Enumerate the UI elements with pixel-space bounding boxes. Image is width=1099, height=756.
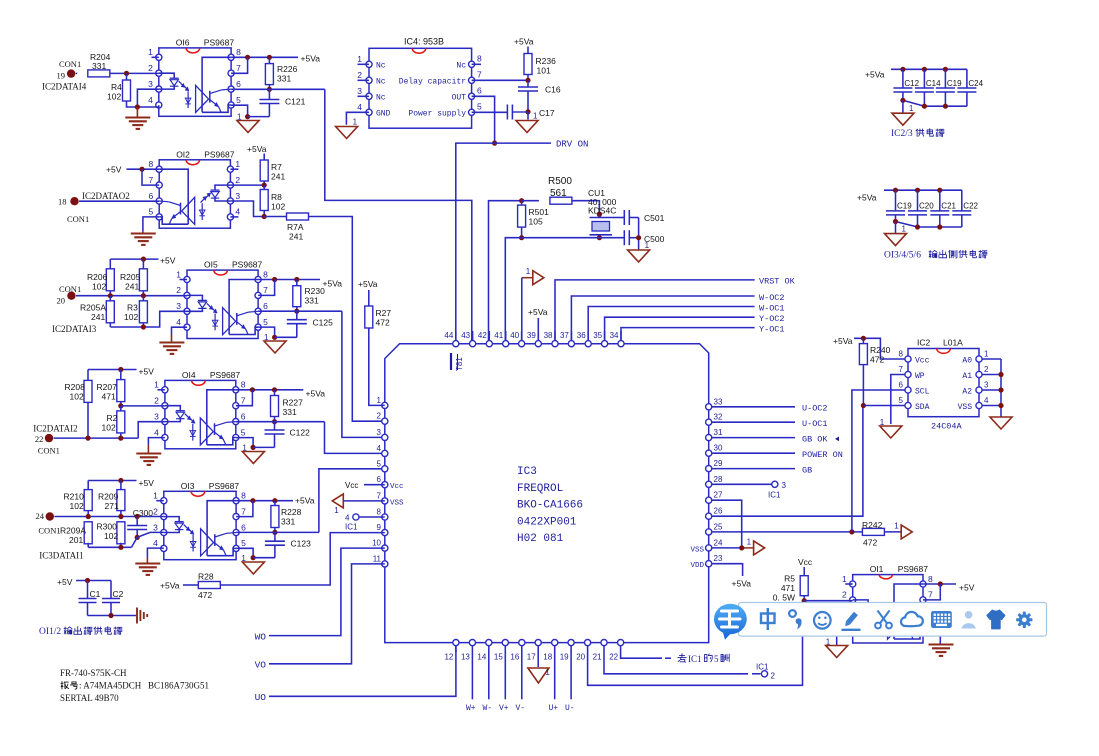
svg-text:33: 33 bbox=[714, 397, 723, 406]
svg-text:1: 1 bbox=[334, 506, 339, 515]
svg-text:CON1: CON1 bbox=[38, 446, 60, 456]
wire Y-OC1 from IC3 pin34 bbox=[621, 328, 755, 344]
svg-text:2: 2 bbox=[771, 672, 776, 681]
offpage pin IC1-3 bbox=[772, 481, 778, 487]
svg-text:14: 14 bbox=[477, 653, 486, 662]
IC2 right pins bbox=[976, 356, 982, 362]
svg-text:1: 1 bbox=[526, 267, 531, 276]
offpage pin IC1-2 bbox=[761, 671, 767, 677]
wire OI1 pin1 stub bbox=[845, 583, 853, 585]
resistor R204 331 bbox=[88, 70, 110, 77]
svg-text:7: 7 bbox=[928, 590, 933, 600]
capacitor C1 bbox=[87, 581, 89, 599]
wire IC3 pin7 to marker bbox=[343, 500, 385, 502]
svg-text:R209A: R209A bbox=[60, 526, 86, 536]
optocoupler OI2 right pins bbox=[227, 166, 233, 172]
svg-text:+5Va: +5Va bbox=[301, 53, 321, 63]
svg-text:10: 10 bbox=[372, 539, 381, 548]
svg-text:102: 102 bbox=[92, 282, 106, 292]
resistor R3 102 bbox=[139, 301, 147, 323]
svg-text:+5Va: +5Va bbox=[247, 144, 267, 154]
wire bottom row OI5 to pin3 bbox=[110, 311, 187, 327]
svg-text:H02 081: H02 081 bbox=[517, 533, 564, 545]
junction R300 bottom bbox=[118, 545, 123, 550]
optocoupler OI3 left pins bbox=[161, 498, 167, 504]
optocoupler OI5 internals bbox=[187, 295, 202, 300]
svg-text:1: 1 bbox=[826, 638, 831, 647]
svg-text:R5: R5 bbox=[784, 574, 795, 584]
ground OI4 bbox=[147, 445, 149, 454]
junction DRV ON bbox=[492, 141, 497, 146]
svg-text:472: 472 bbox=[863, 538, 877, 548]
svg-text:8: 8 bbox=[241, 491, 246, 501]
wire pin4 OI4 to ground bbox=[148, 438, 165, 445]
wire pin3 OI2 riser bbox=[230, 201, 264, 217]
junction OI1 pin7 riser bbox=[938, 581, 943, 586]
svg-text:C24: C24 bbox=[968, 79, 983, 88]
wire VO to IC3 pin11 bbox=[269, 564, 385, 664]
svg-text:R205A: R205A bbox=[80, 303, 106, 313]
svg-text:26: 26 bbox=[714, 507, 723, 516]
svg-text:3: 3 bbox=[984, 381, 989, 390]
svg-text:39: 39 bbox=[527, 331, 536, 340]
svg-text:W-OC2: W-OC2 bbox=[759, 293, 785, 303]
wire DRV ON right bbox=[495, 142, 551, 144]
wire CON1-22 bottom row OI4 bbox=[54, 437, 139, 439]
resistor R500 561 bbox=[522, 200, 539, 202]
svg-text:SCL: SCL bbox=[915, 388, 930, 397]
svg-text:R3: R3 bbox=[127, 303, 138, 313]
svg-text:271: 271 bbox=[105, 501, 119, 511]
wire pin8 OI3 to +5Va bbox=[236, 500, 293, 502]
wire IC3 pin31 GB OK bbox=[712, 437, 795, 439]
wire IC3 pin23 to +5Va bbox=[712, 564, 743, 576]
svg-text:44: 44 bbox=[444, 331, 453, 340]
svg-text:+5V: +5V bbox=[106, 165, 122, 175]
svg-text:331: 331 bbox=[281, 517, 295, 527]
svg-text:20: 20 bbox=[576, 653, 585, 662]
IC3 bottom stubs W+ W- V+ V- U+ U- bbox=[471, 652, 473, 699]
svg-text:T81: T81 bbox=[455, 357, 464, 371]
svg-text:VSS: VSS bbox=[958, 403, 973, 412]
svg-text:IC3: IC3 bbox=[517, 466, 537, 478]
junction C21 bbox=[937, 188, 942, 193]
junction C12 bottom bbox=[900, 98, 905, 103]
svg-text:IC2: IC2 bbox=[917, 338, 931, 348]
net marker 1 IC3 pin24 bbox=[754, 541, 765, 555]
svg-text:U-: U- bbox=[565, 704, 575, 713]
IC3 bottom pins bbox=[453, 640, 459, 646]
svg-text:8: 8 bbox=[899, 350, 904, 359]
svg-text:A2: A2 bbox=[962, 388, 972, 397]
svg-text:PS9687: PS9687 bbox=[204, 149, 235, 159]
wire pin5 OI5 to ground bbox=[258, 327, 275, 337]
svg-text:13: 13 bbox=[461, 653, 470, 662]
IC4 notch bbox=[412, 48, 426, 53]
svg-text:472: 472 bbox=[198, 590, 212, 600]
wire C121 bottom bbox=[248, 116, 270, 118]
wire +5V rail OI5 bbox=[110, 258, 158, 260]
pin1 stub OI5 bbox=[180, 279, 188, 281]
wire pin8 OI4 to +5Va bbox=[236, 389, 303, 391]
svg-text:Vcc: Vcc bbox=[915, 357, 930, 366]
svg-text:PS9687: PS9687 bbox=[204, 37, 235, 47]
svg-text:+5Va: +5Va bbox=[833, 336, 853, 346]
junction +5V riser OI2 bbox=[139, 167, 144, 172]
svg-text:POWER ON: POWER ON bbox=[802, 450, 843, 460]
svg-text:1: 1 bbox=[533, 112, 538, 121]
wire CON1-19 to R204 bbox=[76, 72, 78, 74]
IME toolbar bar bbox=[739, 603, 1047, 637]
svg-text:5: 5 bbox=[241, 538, 246, 548]
svg-text:8: 8 bbox=[263, 269, 268, 279]
svg-text:29: 29 bbox=[714, 459, 723, 468]
junction pin5 gnd OI6 bbox=[245, 114, 250, 119]
svg-text:8: 8 bbox=[377, 508, 382, 517]
svg-text:2: 2 bbox=[148, 63, 153, 73]
wire IC4 pin5 to C17 bbox=[472, 111, 508, 113]
wire pin8 OI6 to +5Va bbox=[231, 56, 298, 58]
svg-text:241: 241 bbox=[289, 232, 303, 242]
svg-text:Vcc: Vcc bbox=[798, 557, 813, 567]
wire OI6 net to IC3 pin43 bbox=[325, 89, 472, 343]
crystal CU1 40.000 KDS4C bbox=[590, 217, 613, 219]
svg-text:6: 6 bbox=[377, 475, 382, 484]
capacitor C21 bbox=[939, 190, 941, 211]
IME icon zhong bbox=[761, 608, 775, 630]
wire R500 left to IC3 pin42 bbox=[489, 201, 522, 344]
svg-text:R7: R7 bbox=[271, 162, 282, 172]
svg-text:2: 2 bbox=[377, 412, 382, 421]
ground marker IC4 bbox=[336, 127, 358, 139]
svg-text:R236: R236 bbox=[536, 56, 557, 66]
wire CON1-20 to pin2 OI5 bbox=[76, 295, 187, 297]
IC U4 953B body bbox=[369, 48, 472, 128]
optocoupler OI2 notch bbox=[186, 160, 200, 165]
svg-text:5: 5 bbox=[714, 654, 719, 664]
resistor R242 472 bbox=[862, 528, 884, 535]
svg-text:WP: WP bbox=[915, 372, 925, 381]
optocoupler OI6 notch bbox=[186, 48, 200, 53]
ground marker cap bank2 bbox=[885, 234, 907, 246]
junction C16/C17 bbox=[525, 109, 530, 114]
junction pin5 gnd OI3 bbox=[251, 555, 256, 560]
IME icon shirt bbox=[987, 610, 1004, 628]
svg-text:+5V: +5V bbox=[57, 577, 73, 587]
capacitor C20 bbox=[917, 190, 919, 211]
wire bottom row OI3 bbox=[88, 546, 131, 548]
offpage pin IC1-4 bbox=[353, 514, 359, 520]
svg-text:28: 28 bbox=[714, 475, 723, 484]
svg-text:4: 4 bbox=[984, 396, 989, 405]
junction pin5 gnd OI4 bbox=[251, 445, 256, 450]
svg-text:1: 1 bbox=[894, 521, 899, 530]
junction R3 bottom bbox=[141, 324, 146, 329]
pin1 stub OI3 bbox=[156, 500, 164, 502]
svg-text:CON1: CON1 bbox=[38, 526, 60, 536]
svg-text:3: 3 bbox=[154, 411, 159, 421]
svg-text:PS9687: PS9687 bbox=[209, 481, 240, 491]
svg-text:30: 30 bbox=[714, 444, 723, 453]
capacitor C2 bbox=[110, 581, 112, 599]
optocoupler OI4 notch bbox=[192, 380, 206, 385]
svg-text:7: 7 bbox=[477, 70, 482, 80]
svg-text:FR-740-S75K-CH: FR-740-S75K-CH bbox=[60, 668, 127, 678]
capacitor C24 bbox=[966, 69, 968, 88]
svg-text:1: 1 bbox=[242, 444, 247, 453]
resistor R4 102 bbox=[126, 73, 128, 80]
optocoupler OI5 left pins bbox=[184, 276, 190, 282]
cap bank1 rail bbox=[891, 68, 967, 70]
wire pin4 OI3 to ground bbox=[147, 548, 163, 557]
net marker 1 IC3 pin7 bbox=[332, 494, 343, 508]
svg-text:2: 2 bbox=[176, 285, 181, 295]
wire pin2 OI2 to R7/R8 bbox=[230, 184, 264, 186]
wire +5V rail OI3 bbox=[88, 480, 136, 482]
resistor R5 471 0.5W bbox=[803, 567, 805, 576]
wire OI1 pin7 riser bbox=[923, 584, 940, 600]
svg-text:+5Va: +5Va bbox=[306, 388, 326, 398]
svg-text:41: 41 bbox=[494, 331, 503, 340]
optocoupler OI6 internals bbox=[159, 73, 174, 78]
svg-text:25: 25 bbox=[714, 522, 723, 531]
pin1 stub OI2 right bbox=[230, 168, 238, 170]
svg-text:+5Va: +5Va bbox=[865, 70, 885, 80]
svg-text:5: 5 bbox=[263, 317, 268, 327]
svg-text:101: 101 bbox=[537, 66, 551, 76]
wire DRV ON to IC3 pin44 bbox=[456, 143, 495, 344]
svg-text:4: 4 bbox=[345, 514, 350, 523]
svg-text:4: 4 bbox=[153, 538, 158, 548]
junction +5V OI4 bbox=[118, 367, 123, 372]
capacitor C121 bbox=[268, 89, 270, 99]
svg-text:PS9687: PS9687 bbox=[232, 260, 263, 270]
svg-text:R242: R242 bbox=[862, 520, 883, 530]
svg-text:IC1: IC1 bbox=[688, 654, 702, 664]
net marker 1 to IC3 pin40 bbox=[533, 271, 544, 285]
svg-text:OI1: OI1 bbox=[870, 564, 884, 574]
svg-text:R8: R8 bbox=[271, 192, 282, 202]
junction pin7 riser OI3 bbox=[250, 498, 255, 503]
wire C1C2 bottom bbox=[88, 615, 137, 617]
svg-text:CON1: CON1 bbox=[59, 284, 81, 294]
svg-text:+5Va: +5Va bbox=[358, 279, 378, 289]
svg-text:3: 3 bbox=[148, 79, 153, 89]
svg-text:+5Va: +5Va bbox=[295, 496, 315, 506]
svg-text:1: 1 bbox=[237, 113, 242, 122]
svg-text:IC1: IC1 bbox=[345, 523, 358, 532]
svg-text:U+: U+ bbox=[549, 704, 559, 713]
IME icon phrase bbox=[789, 610, 796, 617]
svg-text:GB: GB bbox=[802, 465, 812, 475]
resistor R8 102 bbox=[263, 185, 265, 189]
svg-text:+5V: +5V bbox=[160, 256, 176, 266]
wire pin3 OI6 jog bbox=[137, 89, 158, 107]
junction R210 mid bbox=[86, 514, 91, 519]
svg-text:+5Va: +5Va bbox=[160, 581, 180, 591]
svg-text:+5Va: +5Va bbox=[528, 307, 548, 317]
svg-text:12: 12 bbox=[444, 653, 453, 662]
svg-text:R208: R208 bbox=[65, 382, 86, 392]
svg-text:+5Va: +5Va bbox=[514, 37, 534, 47]
svg-text:201: 201 bbox=[69, 535, 83, 545]
svg-text:5: 5 bbox=[477, 102, 482, 112]
wire R207 to pin2 OI4 bbox=[121, 405, 165, 407]
wire pin7 OI3 riser bbox=[236, 501, 253, 517]
net marker 1 R242 bbox=[901, 525, 912, 539]
wire UO to IC3 pin12 bbox=[269, 646, 456, 697]
junction R208 bottom bbox=[85, 436, 90, 441]
pin1 stub OI4 bbox=[157, 389, 165, 391]
svg-text:7: 7 bbox=[241, 506, 246, 516]
ground marker OI6 output bbox=[237, 121, 259, 133]
svg-text:2: 2 bbox=[153, 506, 158, 516]
svg-text:R205: R205 bbox=[120, 272, 141, 282]
svg-text:241: 241 bbox=[125, 282, 139, 292]
svg-text:32: 32 bbox=[714, 413, 723, 422]
wire R242 to marker bbox=[884, 531, 901, 533]
wire pin7 OI4 riser bbox=[236, 390, 253, 406]
svg-text:40: 40 bbox=[510, 331, 519, 340]
svg-text:8: 8 bbox=[241, 380, 246, 390]
connector CON1 pin 20 bbox=[67, 292, 75, 300]
resistor R300 102 bbox=[117, 522, 125, 544]
svg-text:KDS4C: KDS4C bbox=[588, 206, 616, 216]
junction C20 bbox=[915, 188, 920, 193]
capacitor C14 bbox=[923, 69, 925, 88]
junction R5 bottom bbox=[802, 598, 807, 603]
svg-text:CON1: CON1 bbox=[59, 59, 81, 69]
svg-text:R210: R210 bbox=[64, 492, 85, 502]
svg-text:43: 43 bbox=[461, 331, 470, 340]
svg-text:R2: R2 bbox=[107, 413, 118, 423]
resistor R501 105 bbox=[521, 201, 523, 205]
svg-text:35: 35 bbox=[593, 331, 602, 340]
ground marker IC2 WP bbox=[880, 426, 902, 438]
junction pin7 riser OI5 bbox=[272, 277, 277, 282]
wire IC3 pin25 SCL row bbox=[712, 531, 862, 533]
ground OI6 input bbox=[136, 107, 138, 118]
svg-text:+5V: +5V bbox=[139, 367, 155, 377]
resistor R226 331 bbox=[268, 57, 270, 63]
wire IC3 pin26 to SDA bbox=[712, 406, 863, 517]
svg-text:IC1: IC1 bbox=[768, 491, 781, 500]
svg-text:6: 6 bbox=[477, 86, 482, 96]
svg-text:C123: C123 bbox=[291, 539, 312, 549]
svg-text:R300: R300 bbox=[97, 522, 118, 532]
svg-text:+5Va: +5Va bbox=[857, 193, 877, 203]
wire IC3 pin32 U-OC1 bbox=[712, 421, 795, 423]
svg-text:C121: C121 bbox=[285, 97, 306, 107]
ground marker IC2 VSS bbox=[990, 417, 1012, 429]
svg-text:3: 3 bbox=[357, 86, 362, 96]
IME icon person bbox=[962, 611, 976, 629]
junction C12 bbox=[900, 67, 905, 72]
svg-text:Nc: Nc bbox=[456, 61, 466, 70]
junction C500 right bbox=[636, 235, 641, 240]
junction R8 bottom bbox=[262, 214, 267, 219]
svg-text:8: 8 bbox=[236, 47, 241, 57]
svg-text:22: 22 bbox=[35, 434, 44, 444]
svg-text:15: 15 bbox=[494, 653, 503, 662]
svg-text:R206: R206 bbox=[87, 272, 108, 282]
optocoupler OI1 notch bbox=[879, 575, 893, 579]
wire IC4 pin7 to R236 bbox=[472, 79, 528, 81]
optocoupler OI4 left pins bbox=[162, 387, 168, 393]
pin1 stub OI6 bbox=[152, 56, 159, 58]
svg-text:102: 102 bbox=[70, 501, 84, 511]
optocoupler OI1 right pins bbox=[920, 581, 926, 587]
wire pin8 OI5 to +5Va bbox=[258, 279, 320, 281]
svg-text:0422XP001: 0422XP001 bbox=[517, 516, 577, 528]
junction C19b bottom bbox=[893, 219, 898, 224]
svg-text:331: 331 bbox=[277, 74, 291, 84]
svg-text:1: 1 bbox=[545, 668, 550, 677]
svg-text:C19: C19 bbox=[947, 79, 962, 88]
junction R227/C122 bbox=[272, 419, 277, 424]
wire W-OC1 from IC3 pin36 bbox=[588, 307, 754, 344]
svg-text:6: 6 bbox=[899, 381, 904, 390]
svg-text:VO: VO bbox=[255, 660, 267, 671]
capacitor C22 bbox=[961, 190, 963, 211]
svg-text:6: 6 bbox=[241, 522, 246, 532]
junction R228 top bbox=[272, 498, 277, 503]
svg-text:6: 6 bbox=[148, 191, 153, 201]
junction R2 bottom bbox=[118, 436, 123, 441]
svg-text:331: 331 bbox=[283, 407, 297, 417]
svg-text:FREQROL: FREQROL bbox=[517, 483, 563, 495]
svg-text:OI2: OI2 bbox=[176, 149, 190, 159]
wire +5Va to IC2 Vcc bbox=[854, 338, 905, 359]
svg-text:11: 11 bbox=[373, 554, 382, 563]
svg-text:102: 102 bbox=[70, 392, 84, 402]
junction R209 mid bbox=[118, 514, 123, 519]
svg-text:OI6: OI6 bbox=[176, 37, 190, 47]
svg-text:36: 36 bbox=[577, 331, 586, 340]
svg-text:34: 34 bbox=[610, 331, 619, 340]
svg-text:1: 1 bbox=[264, 333, 269, 342]
wire +5V to pin8 OI2 bbox=[127, 168, 160, 170]
svg-text:18: 18 bbox=[58, 197, 67, 207]
svg-text:OI4: OI4 bbox=[182, 370, 196, 380]
svg-text:VDD: VDD bbox=[690, 562, 704, 570]
cap bank2 rail bbox=[884, 189, 962, 191]
connector CON1 pin 24 bbox=[46, 512, 54, 520]
wire CON1-24 to pin2 OI3 bbox=[54, 516, 163, 518]
junction gnd OI6 bbox=[135, 104, 140, 109]
IME icon smiley bbox=[814, 612, 831, 629]
capacitor C122 bbox=[274, 422, 276, 430]
resistor R205 241 bbox=[142, 259, 144, 269]
svg-text:C19: C19 bbox=[897, 202, 912, 211]
svg-text:R28: R28 bbox=[198, 572, 214, 582]
capacitor C16 bbox=[527, 80, 529, 87]
junction SDA bbox=[861, 403, 866, 408]
svg-text:R7A: R7A bbox=[287, 222, 304, 232]
svg-text:R207: R207 bbox=[97, 382, 118, 392]
svg-text:18: 18 bbox=[543, 653, 552, 662]
svg-text:C20: C20 bbox=[919, 202, 934, 211]
svg-text:SERTAL 49B70: SERTAL 49B70 bbox=[60, 693, 119, 703]
svg-text:24C04A: 24C04A bbox=[931, 422, 963, 432]
connector CON1 pin 22 bbox=[45, 434, 53, 442]
svg-text:C17: C17 bbox=[539, 108, 555, 118]
optocoupler OI2 internals bbox=[215, 185, 230, 190]
junction R226/C121 bbox=[267, 87, 272, 92]
resistor R207 471 bbox=[120, 370, 122, 380]
junction pin5 gnd OI5 bbox=[272, 335, 277, 340]
svg-text:3: 3 bbox=[782, 481, 787, 490]
